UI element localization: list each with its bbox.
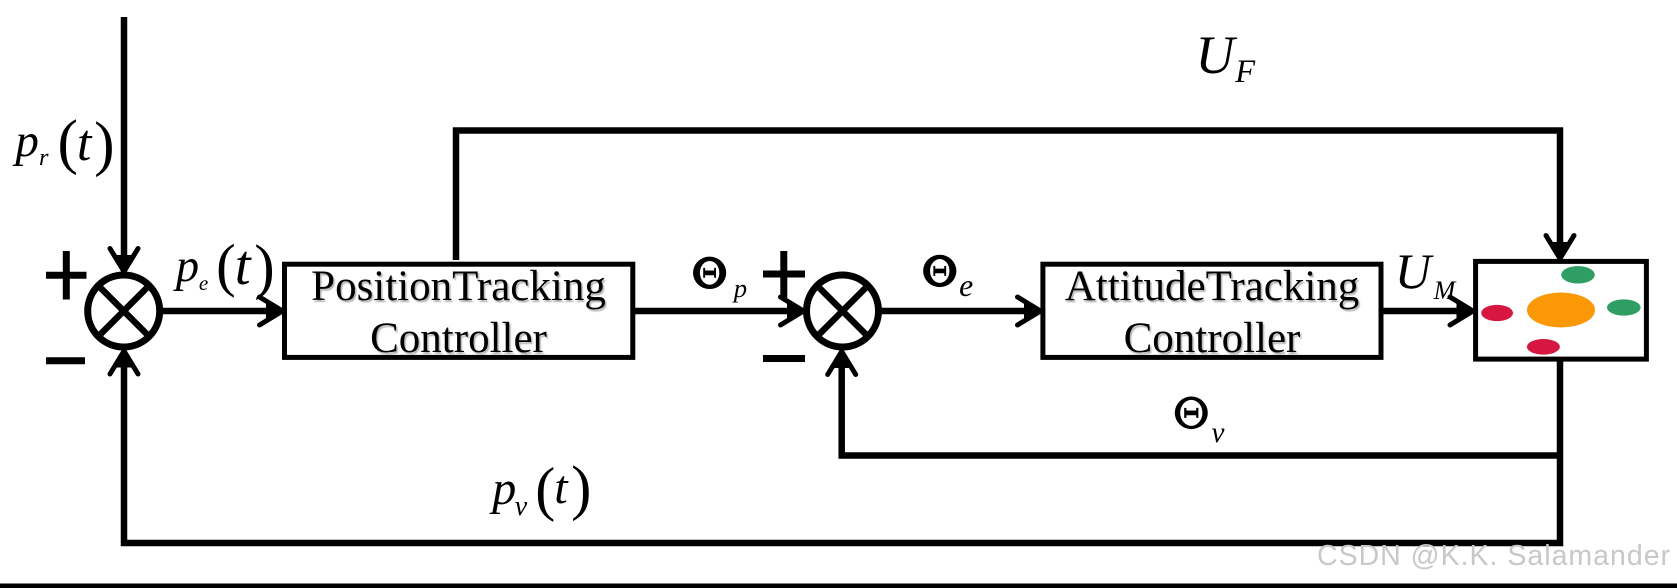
box1 text <box>284 261 633 365</box>
wire Theta_v feedback branch to S2 <box>842 356 1560 456</box>
wire p_v feedback: quad box bottom, down, across, up into S1 <box>124 356 1560 543</box>
arrowhead into S1 bottom <box>110 351 138 374</box>
label Theta_v (Theta glyph) <box>1175 397 1208 430</box>
green rotor right ellipse <box>1607 299 1641 315</box>
plus sign at S1 <box>46 251 87 300</box>
arrowhead into summing junction S1 top <box>110 249 138 272</box>
label p_v(t) <box>492 465 516 513</box>
watermark <box>1317 542 1671 571</box>
label p_e(t) <box>176 244 199 290</box>
label Theta_p <box>734 275 747 302</box>
orange rotor center ellipse <box>1527 293 1595 328</box>
label Theta_v <box>1212 419 1225 448</box>
wire U_F feedforward: up from box1 top, across, down into quad box <box>456 131 1560 261</box>
box2 text <box>1042 261 1382 365</box>
arrowhead into box2 <box>1018 297 1041 325</box>
box2 AttitudeTracking Controller <box>1043 264 1381 357</box>
minus sign at S2 <box>763 355 805 362</box>
summing junction S1 <box>88 275 160 347</box>
label Theta_e <box>959 270 973 302</box>
red rotor bottom ellipse <box>1527 339 1560 355</box>
label Theta_e (Theta glyph) <box>923 255 956 287</box>
label Theta_p (Theta glyph) <box>693 257 726 289</box>
bottom black bar <box>0 584 1677 588</box>
arrowhead into summing junction S2 <box>781 297 804 325</box>
arrowhead into quad box left <box>1450 297 1473 325</box>
wire S1 to box1 <box>160 308 278 315</box>
arrowhead into S2 bottom <box>828 352 856 375</box>
quad box quadrotor plant <box>1476 261 1647 359</box>
arrowhead into quad box top <box>1546 236 1574 259</box>
label U_F <box>1195 29 1234 83</box>
wire box2 to quad box <box>1383 308 1468 315</box>
summing junction S2 <box>807 275 879 347</box>
plus sign at S2 <box>763 251 805 298</box>
wire p_r input vertical <box>121 17 128 267</box>
minus sign at S1 <box>46 357 85 364</box>
green rotor top ellipse <box>1561 266 1595 283</box>
arrowhead into box1 <box>260 297 283 325</box>
wire S2 to box2 <box>879 308 1036 315</box>
label p_r(t) <box>15 118 39 165</box>
label U_M <box>1395 246 1431 296</box>
box1 PositionTracking Controller <box>285 264 633 357</box>
red rotor left ellipse <box>1481 305 1513 321</box>
wire box1 to S2 <box>635 308 799 315</box>
